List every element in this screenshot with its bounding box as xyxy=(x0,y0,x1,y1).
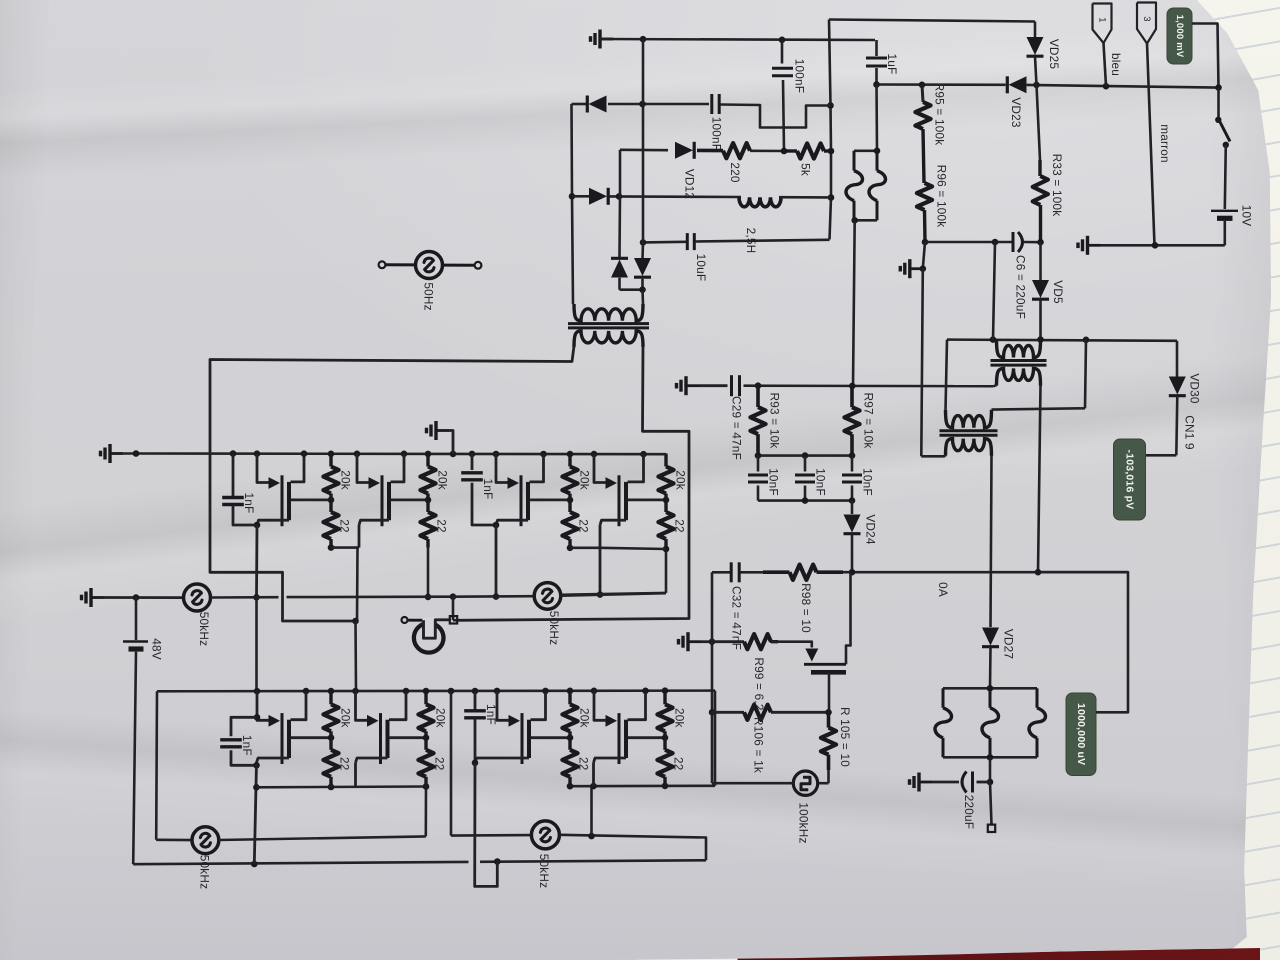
wire row1 bus xyxy=(136,452,666,455)
node n-925-242 xyxy=(922,239,929,246)
svg-text:R33 = 100k: R33 = 100k xyxy=(1050,154,1064,217)
diode D-pair-left (up) xyxy=(611,256,628,290)
wire x451 drop xyxy=(451,691,531,836)
diode VD25 xyxy=(1027,22,1062,85)
wire y572 net xyxy=(712,571,730,574)
transistor M5 (r2a) xyxy=(254,691,331,764)
probe icon xyxy=(402,616,458,653)
source 50kHz (r2a) xyxy=(192,827,219,889)
diode D-row196 xyxy=(589,188,608,205)
wire T1 br down xyxy=(1038,385,1041,572)
wire row-104 mid xyxy=(608,103,709,106)
capacitor 1uF xyxy=(866,40,899,85)
diode D-row104 xyxy=(587,96,606,113)
svg-text:10nF: 10nF xyxy=(767,468,781,496)
ground G2 (mid) xyxy=(900,259,926,278)
wire x922 down xyxy=(921,269,923,457)
wire y787 r2a xyxy=(256,783,429,790)
svg-text:R106 = 1k: R106 = 1k xyxy=(752,717,766,773)
svg-text:marron: marron xyxy=(1158,124,1172,163)
svg-text:50kHz: 50kHz xyxy=(198,855,212,889)
resistor R98 xyxy=(741,565,844,634)
fuse F4 xyxy=(982,688,999,757)
node n-784-151 xyxy=(781,148,788,155)
resistor 220 xyxy=(723,143,784,183)
resistor 5k xyxy=(784,143,831,176)
svg-text:220uF: 220uF xyxy=(962,795,976,829)
svg-text:R96 = 100k: R96 = 100k xyxy=(935,165,949,228)
resistor R95 xyxy=(915,83,946,183)
svg-text:50kHz: 50kHz xyxy=(537,854,551,888)
wire row2 bus xyxy=(157,689,715,692)
svg-text:100kHz: 100kHz xyxy=(797,802,811,843)
resistor R93 xyxy=(750,386,781,456)
wire y242 xyxy=(925,241,1013,244)
wire x1086 down xyxy=(992,340,1087,410)
switch SW1 xyxy=(1215,88,1230,209)
resistor R96 xyxy=(917,165,949,242)
fuse pair top bus xyxy=(854,148,880,155)
wire 22 bottoms r1b xyxy=(567,545,600,552)
fuse F2 (right) xyxy=(869,151,886,221)
node row-104 junction xyxy=(639,101,646,108)
transistor M1 (r1a) xyxy=(257,454,331,527)
resistor pair 20k/22 (r1a-2) xyxy=(420,454,449,548)
battery 48V xyxy=(123,598,164,865)
node row-196 junction xyxy=(616,193,623,200)
source 50kHz (r1b) xyxy=(534,583,561,646)
wire net-B (y85 rail left) xyxy=(876,83,1006,86)
svg-text:100nF: 100nF xyxy=(710,117,724,151)
inductor 2,5H xyxy=(739,197,781,253)
wire 22-2 bottom r1a xyxy=(425,548,432,601)
wire x947 to T2 xyxy=(946,340,948,410)
wire y500 bus xyxy=(758,497,855,504)
transistor M4 (r1b) xyxy=(594,454,666,527)
diode VD30 xyxy=(1169,341,1202,456)
resistor R97 xyxy=(844,386,875,456)
wire x643 rail xyxy=(642,39,645,242)
capacitor 10uF xyxy=(687,233,829,281)
transistor M2 (r1a) xyxy=(357,454,428,527)
wire net-bleu (y87 rail right) xyxy=(1027,85,1219,88)
wire x712 col xyxy=(709,572,716,715)
svg-text:22: 22 xyxy=(338,757,352,771)
resistor pair 20k/22 (r1b-2) xyxy=(658,454,687,548)
svg-text:3: 3 xyxy=(1141,16,1152,21)
wire T3 bottom-right xyxy=(458,346,690,620)
wire R99 row xyxy=(701,638,715,645)
node top-gnd junction A xyxy=(640,36,786,43)
svg-text:CN1 9: CN1 9 xyxy=(1183,415,1197,449)
wire 48V row xyxy=(104,594,184,601)
svg-text:22: 22 xyxy=(433,757,447,771)
wire 50kHz-b left xyxy=(453,595,535,598)
svg-text:20k: 20k xyxy=(434,708,448,728)
wire M1 src col xyxy=(253,525,260,691)
wire M7 src col (U notch) xyxy=(475,763,498,887)
wire y340 rail xyxy=(947,340,1177,341)
transistor M8 (r2b) xyxy=(594,691,666,764)
svg-text:C6 = 220uF: C6 = 220uF xyxy=(1014,255,1028,319)
label CN1 9 xyxy=(1183,415,1197,449)
resistor R99 xyxy=(712,634,778,711)
node n-828-712 xyxy=(825,709,832,716)
resistor pair 20k/22 (r1b-1) xyxy=(562,454,591,548)
node M1 source xyxy=(254,522,261,529)
diode VD24 xyxy=(844,501,878,573)
svg-text:22: 22 xyxy=(577,757,591,771)
wire C29 row left xyxy=(699,384,728,387)
capacitor 10nF (3) xyxy=(842,456,875,501)
resistor R33 xyxy=(1033,85,1064,242)
wire T2 bl xyxy=(944,454,947,457)
wire row-240 (10uF) xyxy=(643,241,686,244)
node M7 src xyxy=(472,760,479,767)
svg-text:10nF: 10nF xyxy=(861,468,875,496)
node M5 src xyxy=(253,762,260,769)
capacitor C32 = 47nF xyxy=(730,562,744,650)
capacitor 10nF (2) xyxy=(795,456,828,501)
wire M6 src drop xyxy=(354,763,357,787)
transistor M7 (r2b) xyxy=(475,691,570,764)
resistor pair 20k/22 (r2b-2) xyxy=(657,691,686,785)
node n-1040-242 xyxy=(1037,239,1044,246)
transformer T2 xyxy=(940,410,998,456)
wire row-104 left xyxy=(572,103,588,106)
source 50Hz xyxy=(379,252,482,311)
wire row-196 right xyxy=(779,196,831,199)
ground G1 (top left) xyxy=(591,30,614,49)
svg-text:50kHz: 50kHz xyxy=(197,612,211,646)
diode VD23 xyxy=(1007,76,1026,128)
wire 50kHz-b right xyxy=(561,593,666,596)
wire x620 rail xyxy=(618,150,621,256)
resistor pair 20k/22 (r2b-1) xyxy=(562,691,591,785)
svg-text:10uF: 10uF xyxy=(694,254,708,282)
wire x715 drop xyxy=(714,691,717,786)
wire pair-bottom xyxy=(620,286,646,304)
wire 50kHz-a out xyxy=(211,593,457,600)
diode VD5 xyxy=(1032,242,1065,339)
svg-text:bleu: bleu xyxy=(1109,53,1123,76)
node y340 junctions xyxy=(990,336,1090,343)
svg-text:C29 = 47nF: C29 = 47nF xyxy=(730,396,744,460)
node y386 junctions xyxy=(755,382,856,389)
svg-text:20k: 20k xyxy=(674,470,688,490)
meter box 1,000 mV xyxy=(1167,8,1222,91)
transistor M3 (r1b) xyxy=(496,454,570,527)
svg-text:100nF: 100nF xyxy=(793,59,807,93)
wire x830 drop xyxy=(829,20,831,240)
fuse bank bottom bus xyxy=(943,754,1037,761)
label 0A xyxy=(936,582,950,597)
wire M2 src col xyxy=(352,525,359,691)
fuse F5 xyxy=(1029,688,1046,757)
node row2 bus dots xyxy=(254,687,669,694)
node n-643-242 xyxy=(640,239,647,246)
svg-text:VD27: VD27 xyxy=(1002,629,1016,659)
svg-text:50kHz: 50kHz xyxy=(547,611,561,645)
node x830 junctions xyxy=(827,102,834,201)
wire marron xyxy=(1147,43,1155,245)
connector flag 1 xyxy=(1093,4,1124,87)
resistor R106 xyxy=(712,705,829,773)
fuse F3 xyxy=(935,688,952,757)
wire x591 up xyxy=(590,786,593,836)
capacitor 1nF (r2b) xyxy=(464,691,498,763)
svg-text:-103,016 pV: -103,016 pV xyxy=(1124,450,1136,510)
svg-text:R 105 = 10: R 105 = 10 xyxy=(838,707,852,767)
wire row-196 mid xyxy=(609,195,742,198)
capacitor 1nF (r1b) xyxy=(461,454,496,526)
capacitor 100nF (top) xyxy=(772,40,807,151)
svg-text:VD25: VD25 xyxy=(1047,39,1061,70)
wire y455 bus xyxy=(755,452,856,459)
svg-text:1uF: 1uF xyxy=(885,54,899,75)
svg-text:R95 = 100k: R95 = 100k xyxy=(933,83,947,146)
port pin (output) xyxy=(988,782,995,832)
svg-text:20k: 20k xyxy=(339,470,353,490)
svg-text:22: 22 xyxy=(435,519,449,533)
wire 50kHz-2a out xyxy=(219,836,426,840)
svg-text:50Hz: 50Hz xyxy=(422,282,436,310)
wire 1uF to wavy pair xyxy=(875,85,878,151)
wire y386 bus xyxy=(744,384,994,387)
svg-text:22: 22 xyxy=(338,519,352,533)
wire 22 bottoms r2b xyxy=(569,784,572,788)
ground G9 (48V row) xyxy=(82,588,105,607)
wire T1 bl to y386 xyxy=(994,385,997,386)
wire y21 top xyxy=(829,20,1035,22)
svg-text:22: 22 xyxy=(673,519,687,533)
ground G4 (output) xyxy=(910,773,933,792)
wire y786 r2b xyxy=(567,783,715,790)
svg-text:1nF: 1nF xyxy=(484,704,498,725)
capacitor C29 = 47nF xyxy=(730,375,744,460)
diode VD12 xyxy=(620,142,723,199)
ground G7 (row1 left) xyxy=(101,444,137,463)
svg-text:1nF: 1nF xyxy=(240,735,254,756)
diode VD27 xyxy=(982,628,1016,689)
ground G3 (battery) xyxy=(1078,236,1101,255)
svg-text:48V: 48V xyxy=(150,638,164,660)
svg-text:VD12: VD12 xyxy=(683,169,697,199)
capacitor 220uF (output) xyxy=(932,772,990,830)
node row1 bus dots xyxy=(133,450,647,457)
svg-text:20k: 20k xyxy=(578,708,592,728)
wire M4 src col xyxy=(597,525,604,598)
capacitor 10nF (1) xyxy=(748,456,781,501)
wire gnd-col junction xyxy=(923,242,925,269)
capacitor 1nF (r1a) xyxy=(222,454,257,526)
wire x993 C6-T1 xyxy=(993,242,995,340)
wire T2 br down (VD27 col) xyxy=(991,456,992,628)
meter box -103,016 pV xyxy=(1114,439,1177,520)
wire row-104 jog xyxy=(721,105,831,128)
wire gate lead (Q1) xyxy=(770,642,812,648)
capacitor C6 = 220uF xyxy=(1013,232,1041,319)
svg-text:1000,000 uV: 1000,000 uV xyxy=(1075,703,1087,765)
svg-text:1nF: 1nF xyxy=(242,493,256,514)
fuse bank top bus xyxy=(943,685,1037,692)
node n-995-242 xyxy=(992,239,999,246)
wire T3 bottom-left to left rail xyxy=(210,346,574,621)
wire M5 src col r2 xyxy=(253,763,260,864)
transformer T1 xyxy=(991,340,1047,386)
resistor pair 20k/22 (r1a-1) xyxy=(323,454,352,548)
connector flag 3 xyxy=(1137,3,1172,163)
transistor M6 (r2a) xyxy=(356,691,427,764)
wire y456 to T2 xyxy=(921,455,945,458)
source 50kHz (r2b) xyxy=(531,821,559,888)
wire row-196 left xyxy=(572,195,589,198)
ground G5 (C29) xyxy=(677,376,700,395)
svg-text:22: 22 xyxy=(672,757,686,771)
svg-text:1: 1 xyxy=(1097,17,1108,22)
wire to output node xyxy=(987,757,994,785)
svg-text:R97 = 10k: R97 = 10k xyxy=(862,393,876,449)
resistor pair 20k/22 (r2a-2) xyxy=(418,691,447,785)
svg-text:VD30: VD30 xyxy=(1188,373,1202,404)
svg-text:0A: 0A xyxy=(936,582,950,597)
battery 10V xyxy=(1211,205,1254,246)
wire x453 drop xyxy=(453,597,458,621)
node M3 source xyxy=(493,522,500,529)
wire y572 right xyxy=(843,569,1128,576)
svg-text:10nF: 10nF xyxy=(814,468,828,496)
capacitor 100nF (second) xyxy=(710,94,724,151)
wire 20k2 bottom r2a xyxy=(425,785,428,786)
transformer T3 xyxy=(568,304,649,347)
diode D-pair-right (down) xyxy=(634,242,651,290)
svg-text:R98 = 10: R98 = 10 xyxy=(799,583,813,633)
node bleu junctions xyxy=(873,81,1109,89)
ground G6 (R99) xyxy=(679,632,702,651)
node x572 junction xyxy=(569,193,576,200)
svg-text:22: 22 xyxy=(577,519,591,533)
wire M3 src col xyxy=(493,525,500,600)
wire 22-4 bottom loop xyxy=(561,546,669,595)
source 50kHz (r1a) xyxy=(184,584,212,646)
source 100kHz xyxy=(712,712,829,843)
wire x572 left rail xyxy=(572,104,574,304)
wire 50kHz-2b right xyxy=(560,833,707,861)
wire x854 down to R97 node xyxy=(853,220,855,386)
svg-text:1nF: 1nF xyxy=(481,479,495,500)
resistor R 105 xyxy=(821,707,852,770)
svg-text:20k: 20k xyxy=(436,470,450,490)
wire net-gnd-top xyxy=(600,39,875,40)
wire M8 src drop xyxy=(592,763,595,786)
fuse pair bottom bus xyxy=(851,217,877,224)
wire 20k4 bottom r2b xyxy=(664,784,667,787)
svg-text:10V: 10V xyxy=(1240,205,1254,227)
svg-text:5k: 5k xyxy=(799,163,813,176)
fuse F1 (left) xyxy=(846,151,863,221)
wire x426 up xyxy=(424,787,427,837)
svg-text:20k: 20k xyxy=(578,470,592,490)
svg-text:VD24: VD24 xyxy=(864,514,878,545)
svg-text:220: 220 xyxy=(728,162,742,183)
wire rail y864 xyxy=(133,858,706,867)
resistor pair 20k/22 (r2a-1) xyxy=(323,691,352,785)
wire x157 rail xyxy=(156,691,192,840)
ground G8 (row1 mid) xyxy=(427,421,454,454)
wire 22 bottoms r2a xyxy=(330,785,333,787)
svg-text:20k: 20k xyxy=(339,708,353,728)
svg-text:1,000 mV: 1,000 mV xyxy=(1174,15,1185,58)
wire y245 battery return xyxy=(1101,242,1225,249)
wire 22 bottoms r1a xyxy=(328,544,359,551)
meter box 1000,000 uV xyxy=(1038,572,1128,775)
svg-text:R93 = 10k: R93 = 10k xyxy=(768,393,782,449)
svg-text:VD5: VD5 xyxy=(1051,280,1065,304)
capacitor 1nF (r2a) xyxy=(220,717,256,765)
svg-text:VD23: VD23 xyxy=(1009,97,1023,128)
transistor Q1 (mid MOSFET) xyxy=(804,572,851,712)
svg-text:20k: 20k xyxy=(673,708,687,728)
